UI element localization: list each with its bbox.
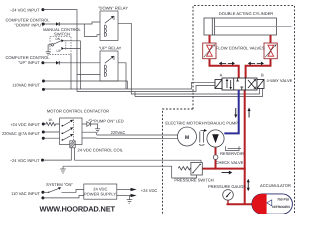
pipe cylinder right port	[270, 35, 272, 44]
resistor R1 1K	[43, 122, 59, 125]
LED PUMP ON	[87, 119, 94, 127]
flow arrows up-down (accumulator line)	[247, 179, 250, 191]
relay K1 coil	[105, 25, 107, 37]
node 110 VAC input (bottom) lower	[41, 196, 44, 199]
pipe junction horizontal	[202, 168, 245, 170]
piston	[211, 18, 213, 35]
flow control valve FCV2	[264, 43, 277, 59]
svg-text:DN: DN	[56, 37, 61, 41]
svg-text:"DOWN" RELAY: "DOWN" RELAY	[98, 6, 128, 11]
solenoid left	[215, 80, 222, 89]
wire DN contact out	[64, 40, 81, 42]
svg-text:POWER SUPPLY.: POWER SUPPLY.	[84, 192, 117, 197]
contactor linkage	[73, 120, 75, 141]
wire 220VAC to motor lower	[82, 137, 179, 139]
svg-text:4-WAY VALVE: 4-WAY VALVE	[267, 78, 293, 83]
relay K2 coil	[105, 65, 107, 77]
pipe check valve to junction	[215, 160, 217, 170]
svg-text:PRESSURE SWITCH: PRESSURE SWITCH	[174, 178, 213, 183]
left cell arrows	[226, 79, 232, 90]
wire UP relay coil stub	[77, 74, 100, 76]
diode D1 (DOWN input)	[56, 22, 60, 26]
svg-text:B: B	[261, 73, 264, 78]
relay K2 switch arm	[105, 56, 114, 63]
contact DN	[61, 39, 64, 42]
piston rod	[215, 26, 292, 28]
svg-text:220VAC: 220VAC	[111, 130, 126, 135]
flow arrow right (junction)	[222, 171, 233, 175]
wire 220VAC to motor upper	[82, 132, 178, 135]
ground (manual switch)	[46, 52, 51, 55]
wire pivot to ground	[48, 45, 51, 52]
pipe accumulator horizontal	[227, 203, 254, 205]
pressure gauge	[223, 190, 234, 201]
svg-text:DOUBLE ACTING CYLINDER: DOUBLE ACTING CYLINDER	[219, 11, 273, 16]
wire supply output +	[117, 188, 137, 191]
node +24VDC input	[42, 123, 45, 126]
svg-text:PRESSURE GAUGE: PRESSURE GAUGE	[208, 184, 246, 189]
node computer control UP input	[41, 61, 44, 64]
24 VDC power supply box	[84, 184, 117, 199]
solenoid right	[257, 80, 264, 89]
4-way valve body	[215, 78, 264, 90]
wire coil input from ~24VDC	[41, 159, 44, 162]
double acting cylinder	[204, 18, 292, 35]
switch SYSTEM ON	[43, 187, 84, 193]
svg-text:M: M	[185, 135, 189, 141]
svg-text:SYSTEM "ON": SYSTEM "ON"	[46, 182, 73, 187]
switch pivot	[51, 44, 53, 46]
svg-text:A: A	[220, 73, 223, 78]
node 110VAC input upper	[42, 80, 45, 83]
svg-text:"UP" INPUT: "UP" INPUT	[18, 60, 40, 65]
svg-text:FLOW CONTROL VALVES: FLOW CONTROL VALVES	[216, 45, 265, 50]
svg-text:ELECTRIC MOTOR: ELECTRIC MOTOR	[165, 121, 201, 126]
svg-text:"UP" RELAY: "UP" RELAY	[99, 45, 122, 50]
coil box 24VDC control coil	[70, 141, 75, 148]
svg-text:24 VDC CONTROL COIL: 24 VDC CONTROL COIL	[78, 148, 124, 153]
flow direction arrows (left pair)	[219, 62, 235, 66]
label DN / UP	[56, 37, 61, 53]
wire ~24VDC top feed	[43, 10, 77, 92]
wire K1 output	[118, 23, 260, 94]
svg-text:1K: 1K	[48, 118, 53, 122]
center cell blocked ports	[236, 78, 243, 90]
wire 110VAC lower to supply	[43, 196, 84, 198]
node ~24 VDC input (top)	[41, 8, 44, 11]
svg-text:750 PSI: 750 PSI	[277, 197, 289, 201]
pipe left flow valve to 4-way valve	[210, 58, 239, 79]
wire K2 output	[118, 63, 126, 89]
pipe gauge stub	[227, 200, 229, 204]
wire UP input to relay	[43, 62, 100, 64]
pipe cylinder left port (red)	[202, 35, 270, 204]
flow arrow up (red line)	[248, 108, 251, 118]
svg-text:HYDRAULIC PUMP: HYDRAULIC PUMP	[202, 121, 239, 126]
switch linkage (dashed)	[65, 40, 67, 49]
hydraulic pump	[207, 130, 224, 147]
diode D2 (UP input)	[56, 61, 60, 65]
svg-text:RESERVOIR: RESERVOIR	[220, 151, 244, 156]
pipe pump to check valve	[215, 147, 217, 155]
svg-text:~24 VDC INPUT: ~24 VDC INPUT	[10, 158, 40, 163]
wire solenoid line2	[77, 86, 215, 92]
svg-text:110 VAC INPUT: 110 VAC INPUT	[11, 191, 40, 196]
pressure switch	[178, 162, 202, 175]
accumulator	[252, 194, 292, 214]
right cell cross arrows	[248, 79, 256, 89]
contactor pole 2	[62, 127, 74, 134]
wire valve solenoid return wrap	[134, 92, 136, 97]
node computer control DOWN input	[42, 23, 45, 26]
node 220VAC input lower	[42, 137, 45, 140]
svg-text:"PUMP ON" LED: "PUMP ON" LED	[93, 119, 124, 124]
wire 110VAC line1 to valve solenoid	[44, 81, 128, 89]
svg-text:SWITCH: SWITCH	[54, 32, 70, 37]
electric motor M	[178, 127, 197, 146]
relay K2 "UP" box	[100, 51, 118, 81]
svg-text:"DOWN" INPUT: "DOWN" INPUT	[15, 23, 44, 28]
wire bus vertical x80.5	[80, 41, 82, 89]
motor control contactor box	[60, 118, 83, 145]
label 750 PSI / NITROGEN	[272, 197, 290, 209]
svg-text:+24 VDC INPUT: +24 VDC INPUT	[10, 122, 40, 127]
pipe 4-way valve to junction (tank/pressure)	[244, 90, 246, 169]
relay K1 switch arm	[105, 16, 114, 23]
coupling motor-pump	[199, 129, 207, 145]
spring	[178, 167, 191, 170]
svg-text:UP: UP	[57, 49, 61, 53]
pipe right flow valve to 4-way valve	[246, 58, 271, 79]
svg-text:110VAC INPUT: 110VAC INPUT	[12, 82, 40, 87]
hydraulic enclosure dashed border	[163, 6, 295, 215]
svg-text:WWW.HOORDAD.NET: WWW.HOORDAD.NET	[40, 205, 116, 214]
node 220VAC input upper	[42, 131, 45, 134]
contact UP	[61, 47, 64, 50]
relay K1 "DOWN" box	[100, 11, 118, 41]
check valve ball	[213, 155, 218, 160]
node 110VAC input lower	[42, 88, 45, 91]
reservoir symbol	[226, 146, 242, 150]
flow arrow down (blue line)	[234, 108, 237, 118]
svg-text:220VAC @7A INPUT: 220VAC @7A INPUT	[2, 131, 41, 136]
ground (LED)	[95, 129, 100, 132]
pipe down to accumulator	[244, 169, 246, 205]
wire coil branch	[84, 24, 100, 36]
wire 110VAC line2 to valve solenoid	[44, 82, 216, 89]
wire DOWN input to relay	[43, 22, 100, 24]
manual control switch S1 (dashed box)	[50, 36, 71, 54]
switch arm DN	[53, 41, 61, 45]
wire bus vertical x71 from manual switch	[70, 55, 72, 90]
ground (coil circuit)	[60, 169, 66, 173]
contactor pole 3	[62, 134, 74, 141]
wire LED feed	[82, 123, 87, 125]
svg-text:MOTOR CONTROL CONTACTOR: MOTOR CONTROL CONTACTOR	[47, 108, 109, 113]
contactor pole 1	[62, 120, 74, 127]
svg-text:+24 VDC: +24 VDC	[141, 188, 158, 193]
wire coil to pressure switch	[75, 148, 202, 163]
svg-text:ACCUMULATOR: ACCUMULATOR	[260, 183, 291, 188]
svg-text:CHECK VALVE: CHECK VALVE	[216, 160, 244, 165]
svg-text:NITROGEN: NITROGEN	[272, 205, 290, 209]
flow direction arrows (right pair)	[248, 62, 264, 66]
svg-text:~24 VDC INPUT: ~24 VDC INPUT	[10, 8, 40, 13]
wire UP contact out	[64, 48, 81, 50]
wire supply output -	[117, 194, 137, 197]
flow control valve FCV1	[203, 43, 216, 59]
wire ground branch to pressure switch	[63, 166, 197, 178]
wire LED to ground	[90, 124, 97, 129]
ground (power supply)	[127, 196, 133, 204]
wire to pressure switch spring	[0, 0, 1, 1]
node 110 VAC input (bottom) upper	[41, 191, 44, 194]
pipe pump suction (blue)	[224, 90, 238, 133]
